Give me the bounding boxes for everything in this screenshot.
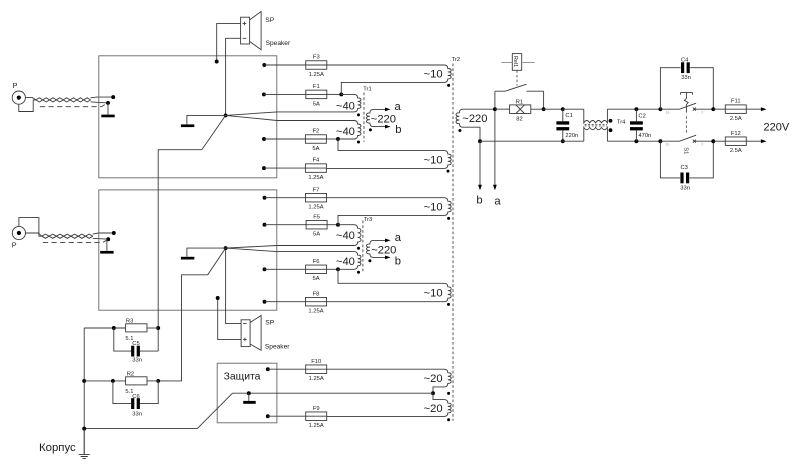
svg-text:b: b xyxy=(395,255,401,267)
ground (amp2) xyxy=(181,257,194,260)
relay contact xyxy=(495,84,544,109)
node xyxy=(247,391,251,395)
wire (bottom rail) xyxy=(480,140,584,142)
svg-text:1.25A: 1.25A xyxy=(309,376,324,382)
node (amp1 out F1) xyxy=(262,92,266,96)
node xyxy=(493,107,497,111)
svg-text:b: b xyxy=(476,195,482,207)
fuse F4 xyxy=(305,158,326,181)
amplifier block 2 xyxy=(99,190,277,310)
svg-text:33n: 33n xyxy=(681,75,691,81)
svg-text:470n: 470n xyxy=(638,133,651,139)
node xyxy=(478,139,482,143)
node xyxy=(634,139,638,143)
node xyxy=(658,139,662,143)
Tr1 secondary ~220 xyxy=(367,108,396,129)
svg-text:1.25A: 1.25A xyxy=(309,72,324,78)
svg-text:C4: C4 xyxy=(681,58,689,64)
svg-text:~40: ~40 xyxy=(336,256,355,268)
wire xyxy=(215,23,241,63)
ground (amp1) xyxy=(181,124,194,127)
svg-text:2: 2 xyxy=(701,143,703,147)
wire xyxy=(26,233,42,236)
svg-text:C1: C1 xyxy=(565,113,572,119)
node xyxy=(711,139,715,143)
wire xyxy=(264,93,306,95)
svg-text:a: a xyxy=(395,232,402,244)
node b (Tr1) xyxy=(395,124,401,136)
switch contact marks xyxy=(666,111,704,147)
node (amp1 out F4) xyxy=(262,166,266,170)
wire xyxy=(327,268,338,270)
speaker SP (channel 2) xyxy=(241,316,290,351)
svg-text:Rel1: Rel1 xyxy=(512,56,518,67)
node (amp1 out F2) xyxy=(262,137,266,141)
svg-text:5A: 5A xyxy=(313,101,320,107)
node (amp2 out F5) xyxy=(263,223,267,227)
wire xyxy=(113,381,158,404)
wire xyxy=(19,218,42,237)
wire xyxy=(226,38,241,115)
capacitor C4 xyxy=(681,58,691,81)
svg-text:F5: F5 xyxy=(313,214,320,220)
svg-text:Tr2: Tr2 xyxy=(452,57,460,63)
svg-text:F2: F2 xyxy=(313,129,320,135)
svg-text:F10: F10 xyxy=(311,359,321,365)
Tr2 polarity dot xyxy=(458,129,461,132)
wire xyxy=(713,140,725,142)
svg-text:C3: C3 xyxy=(681,165,688,171)
ground (input 1) xyxy=(101,103,114,117)
wire xyxy=(264,167,305,169)
speaker SP (channel 1) xyxy=(241,12,291,50)
svg-text:F8: F8 xyxy=(313,291,320,297)
svg-text:Tr1: Tr1 xyxy=(363,87,371,93)
wire xyxy=(158,248,225,381)
resistor R1 xyxy=(510,99,531,122)
node a (Tr1) xyxy=(395,101,402,113)
Tr3 primary winding ~40 (upper) xyxy=(226,225,361,248)
svg-text:SP: SP xyxy=(265,320,274,327)
wire (top rail) xyxy=(563,108,584,110)
svg-text:1.25A: 1.25A xyxy=(308,175,323,181)
wire (top rail) xyxy=(607,108,660,110)
node (amp2 out F8) xyxy=(263,300,267,304)
node b (Tr3) xyxy=(395,255,401,267)
protection block (Защита) xyxy=(217,363,277,423)
svg-text:~40: ~40 xyxy=(336,230,355,242)
svg-text:F6: F6 xyxy=(313,259,320,265)
node xyxy=(336,223,340,227)
svg-text:~40: ~40 xyxy=(336,100,355,112)
Tr2 winding ~10 (1) xyxy=(327,65,451,94)
wire xyxy=(19,100,36,112)
switch S1 pole 2 xyxy=(660,135,713,143)
capacitor C6 xyxy=(131,394,142,418)
svg-text:~10: ~10 xyxy=(424,288,443,300)
node (amp2 out F6) xyxy=(263,267,267,271)
wire xyxy=(326,138,338,140)
node xyxy=(111,379,115,383)
wire xyxy=(187,248,226,257)
fuse F1 xyxy=(306,84,327,107)
Tr2 core xyxy=(452,64,454,421)
svg-text:F9: F9 xyxy=(313,406,320,412)
wire (bottom rail) xyxy=(607,140,660,142)
node xyxy=(561,107,565,111)
node xyxy=(82,427,86,431)
Tr3 core xyxy=(362,221,364,273)
wire xyxy=(84,428,197,430)
Tr3 polarity dot xyxy=(368,259,371,262)
wire xyxy=(562,109,564,141)
Tr2 winding ~10 (3) xyxy=(327,198,452,225)
relay coil Rel1 xyxy=(501,54,535,71)
wire xyxy=(93,231,116,241)
Tr4 core xyxy=(585,124,608,126)
svg-text:Tr3: Tr3 xyxy=(364,217,372,223)
svg-text:Защита: Защита xyxy=(224,371,261,382)
fuse F2 xyxy=(305,129,326,152)
fuse F10 xyxy=(306,359,327,382)
node (amp2 star ground) xyxy=(224,246,228,250)
fuse F6 xyxy=(306,259,327,282)
Tr2 polarity dot xyxy=(447,84,450,87)
node (center tap) xyxy=(431,391,435,395)
wire xyxy=(84,380,158,382)
coax dashed screen xyxy=(43,240,107,243)
node xyxy=(82,379,86,383)
svg-text:P: P xyxy=(13,81,18,90)
node xyxy=(156,326,160,330)
Tr2 winding ~10 (2) xyxy=(326,139,451,168)
connector P (RCA input 1) xyxy=(12,81,25,104)
relay mechanical link xyxy=(516,70,518,85)
wire xyxy=(265,301,306,303)
wire xyxy=(226,248,242,323)
svg-text:33n: 33n xyxy=(132,358,142,364)
svg-text:2.5A: 2.5A xyxy=(730,148,742,154)
node (amp1 star ground) xyxy=(224,113,228,117)
node a (Tr3) xyxy=(395,232,402,244)
ground (input 2) xyxy=(100,239,113,253)
fuse F9 xyxy=(306,406,327,429)
svg-text:C5: C5 xyxy=(132,341,139,347)
svg-text:~220: ~220 xyxy=(371,113,396,125)
net label 220V xyxy=(764,122,790,134)
svg-text:5A: 5A xyxy=(313,232,320,238)
svg-text:F11: F11 xyxy=(731,99,741,105)
svg-text:1b: 1b xyxy=(666,143,670,147)
Tr2 winding ~20 (2) xyxy=(327,393,451,416)
svg-text:R3: R3 xyxy=(126,318,133,324)
svg-text:C6: C6 xyxy=(132,394,139,400)
node xyxy=(266,414,270,418)
wire xyxy=(265,224,307,226)
wire (chassis rail) xyxy=(83,328,85,455)
svg-text:C2: C2 xyxy=(638,113,645,119)
Tr4 label xyxy=(617,119,626,125)
svg-text:F3: F3 xyxy=(313,55,320,61)
svg-text:1.25A: 1.25A xyxy=(308,205,323,211)
node xyxy=(658,107,662,111)
Tr3 secondary ~220 xyxy=(367,239,397,260)
svg-text:~10: ~10 xyxy=(424,202,443,214)
resistor R2 xyxy=(125,371,147,395)
svg-text:220n: 220n xyxy=(565,133,578,139)
choke Tr4 winding 1 xyxy=(584,109,608,123)
fuse F7 xyxy=(306,187,327,210)
wire xyxy=(216,296,241,339)
fuse F3 xyxy=(306,55,327,78)
wire xyxy=(660,68,713,109)
node xyxy=(561,139,565,143)
resistor R3 xyxy=(125,318,147,342)
Tr2 primary ~220 xyxy=(456,109,495,141)
svg-text:220V: 220V xyxy=(764,122,790,134)
choke Tr4 winding 2 xyxy=(584,127,608,141)
wire xyxy=(248,393,250,401)
wire xyxy=(264,138,305,140)
node xyxy=(634,107,638,111)
wire xyxy=(495,108,563,110)
chassis ground (Корпус) xyxy=(39,429,90,459)
node xyxy=(112,326,116,330)
svg-text:5A: 5A xyxy=(313,276,320,282)
svg-text:33n: 33n xyxy=(132,412,142,418)
svg-text:~10: ~10 xyxy=(424,155,443,167)
fuse F8 xyxy=(306,291,327,314)
wire xyxy=(91,95,116,105)
Tr2 polarity dot xyxy=(447,217,450,220)
svg-text:82: 82 xyxy=(516,116,522,122)
svg-text:a: a xyxy=(494,196,501,208)
Tr3 polarity dot xyxy=(357,271,360,274)
amplifier block 1 xyxy=(99,56,277,178)
svg-text:33n: 33n xyxy=(680,185,690,191)
wire xyxy=(158,115,225,351)
wire xyxy=(327,93,342,95)
svg-text:Tr4: Tr4 xyxy=(617,119,626,125)
node (amp1 out F3) xyxy=(262,63,266,67)
svg-text:2.5A: 2.5A xyxy=(730,116,742,122)
wire xyxy=(713,108,725,110)
Tr2 polarity dot xyxy=(447,170,450,173)
fuse F5 xyxy=(306,214,327,237)
wire xyxy=(187,115,226,124)
svg-text:S1: S1 xyxy=(682,147,688,154)
capacitor C2 xyxy=(630,113,651,139)
svg-text:1.25A: 1.25A xyxy=(309,423,324,429)
Tr3 primary winding ~40 (lower) xyxy=(226,248,361,269)
transformer Tr1 label xyxy=(363,87,371,93)
capacitor C5 xyxy=(131,341,142,363)
transformer Tr2 label xyxy=(452,57,460,63)
Tr1 core xyxy=(363,93,365,142)
node b (mains to Tr1/Tr3) xyxy=(476,141,482,206)
node xyxy=(542,107,546,111)
switch S1 pole 1 xyxy=(660,103,713,111)
svg-text:~20: ~20 xyxy=(424,373,443,385)
fuse F12 xyxy=(725,131,746,154)
wire xyxy=(268,415,306,417)
Tr2 winding ~10 (4) xyxy=(327,269,452,301)
node xyxy=(156,379,160,383)
coax shield braid xyxy=(42,234,93,238)
Tr1 polarity dot xyxy=(369,128,372,131)
svg-text:1a: 1a xyxy=(666,111,670,115)
Tr4 polarity dot xyxy=(609,128,613,132)
Tr1 polarity dot xyxy=(357,113,360,116)
Tr2 winding ~20 (1) xyxy=(327,369,451,393)
fuse F11 xyxy=(725,99,746,122)
node xyxy=(336,137,340,141)
coax dashed screen xyxy=(40,104,106,107)
svg-text:2: 2 xyxy=(701,111,703,115)
wire xyxy=(265,268,306,270)
wire (center tap line) xyxy=(233,392,434,394)
node xyxy=(266,367,270,371)
Tr1 primary winding ~40 (upper) xyxy=(226,94,361,115)
wire (mains N) xyxy=(746,139,766,143)
Tr2 polarity dot xyxy=(447,418,450,421)
svg-text:b: b xyxy=(395,124,401,136)
wire xyxy=(25,98,36,100)
coax shield braid xyxy=(36,98,91,102)
Tr3 ~40 lower label xyxy=(336,256,355,268)
wire xyxy=(265,197,306,199)
Tr4 polarity dot xyxy=(609,119,613,123)
svg-text:~20: ~20 xyxy=(424,403,443,415)
connector P (RCA input 2) xyxy=(12,226,26,249)
wire xyxy=(268,368,306,370)
svg-text:~40: ~40 xyxy=(336,126,355,138)
svg-text:Speaker: Speaker xyxy=(266,40,291,47)
node (amp2 out F7) xyxy=(263,196,267,200)
node xyxy=(336,267,340,271)
svg-text:F12: F12 xyxy=(731,131,741,137)
svg-text:~220: ~220 xyxy=(462,113,487,125)
wire xyxy=(635,109,637,141)
svg-text:F4: F4 xyxy=(313,158,321,164)
wire xyxy=(84,327,158,329)
Tr1 primary winding ~40 (lower) xyxy=(226,115,361,139)
node xyxy=(339,92,343,96)
svg-text:Speaker: Speaker xyxy=(265,344,290,351)
capacitor C3 xyxy=(680,165,690,192)
node xyxy=(711,107,715,111)
Tr1 polarity dot xyxy=(357,141,360,144)
Tr3 polarity dot xyxy=(357,247,360,250)
svg-text:F7: F7 xyxy=(313,187,320,193)
svg-text:5A: 5A xyxy=(312,146,319,152)
wire xyxy=(660,141,713,178)
svg-text:Корпус: Корпус xyxy=(39,442,76,454)
capacitor C1 xyxy=(556,113,578,139)
wire xyxy=(264,64,306,66)
svg-text:a: a xyxy=(395,101,402,113)
wire (mains L) xyxy=(746,107,766,111)
svg-text:~10: ~10 xyxy=(424,68,443,80)
svg-text:F1: F1 xyxy=(313,84,320,90)
ground (protection) xyxy=(243,401,256,404)
wire xyxy=(327,224,338,226)
wire xyxy=(197,393,232,428)
wire xyxy=(114,328,158,351)
svg-text:P: P xyxy=(12,241,17,250)
Tr2 polarity dot xyxy=(447,392,450,395)
transformer Tr3 label xyxy=(364,217,372,223)
svg-text:R1: R1 xyxy=(516,99,523,105)
svg-text:~220: ~220 xyxy=(371,244,396,256)
Tr1 ~40 lower label xyxy=(336,126,355,138)
svg-text:SP: SP xyxy=(265,17,274,24)
Tr2 polarity dot xyxy=(447,303,450,306)
switch S1 actuator xyxy=(681,92,693,154)
svg-text:R2: R2 xyxy=(127,371,134,377)
node a (mains to Tr1/Tr3) xyxy=(493,109,501,207)
svg-text:1.25A: 1.25A xyxy=(308,309,323,315)
